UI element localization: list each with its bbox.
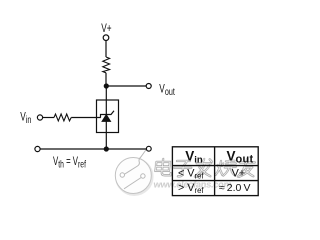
电 bbox=[155, 159, 172, 175]
shunt regulator U1 box bbox=[97, 100, 119, 133]
子 bbox=[173, 161, 192, 176]
友 bbox=[238, 159, 255, 177]
发 bbox=[195, 159, 212, 177]
svg-text:≈ 2.0 V: ≈ 2.0 V bbox=[219, 182, 251, 194]
resistor R2 (horizontal) bbox=[54, 114, 71, 121]
terminal rail left bbox=[35, 146, 40, 151]
烧 bbox=[215, 159, 236, 176]
watermark text 电子发烧友 bbox=[155, 159, 255, 177]
label Vth = Vref bbox=[53, 156, 86, 170]
watermark url www.elecfans.com bbox=[152, 179, 232, 189]
label Vin bbox=[20, 111, 31, 125]
svg-text:Vth = Vref: Vth = Vref bbox=[53, 156, 86, 170]
terminal rail right bbox=[146, 146, 151, 151]
svg-text:Vout: Vout bbox=[159, 83, 175, 97]
wire U1 anode (triangle through box bottom to node B) bbox=[105, 122, 107, 150]
wire U1 cathode (internal, box top to zener bar) bbox=[105, 100, 107, 115]
svg-text:Vin: Vin bbox=[20, 111, 31, 125]
wire V+ terminal to R1 bbox=[105, 41, 107, 57]
resistor R1 (vertical) bbox=[103, 57, 110, 73]
label V+ bbox=[101, 23, 111, 36]
truth table bbox=[172, 147, 258, 196]
wire node A down to U1 box bbox=[105, 86, 107, 100]
watermark stamp logo bbox=[115, 149, 152, 194]
svg-text:V+: V+ bbox=[232, 168, 246, 180]
bottom rail wire bbox=[40, 148, 146, 150]
terminal V+ bbox=[103, 35, 109, 41]
wire R2 to U1 reference pin bbox=[71, 117, 101, 119]
node B junction dot bbox=[104, 146, 109, 151]
wire node A to Vout terminal bbox=[106, 85, 146, 87]
zener diode D1 anode triangle bbox=[102, 115, 111, 122]
wire Vin terminal to R2 bbox=[43, 117, 54, 119]
node A junction dot bbox=[104, 83, 109, 88]
label Vout bbox=[159, 83, 175, 97]
terminal Vin bbox=[37, 115, 42, 120]
wire R1 to node A bbox=[105, 73, 107, 86]
svg-text:V+: V+ bbox=[101, 23, 111, 36]
zener diode D1 cathode bar bbox=[101, 111, 115, 118]
terminal Vout bbox=[146, 84, 151, 89]
